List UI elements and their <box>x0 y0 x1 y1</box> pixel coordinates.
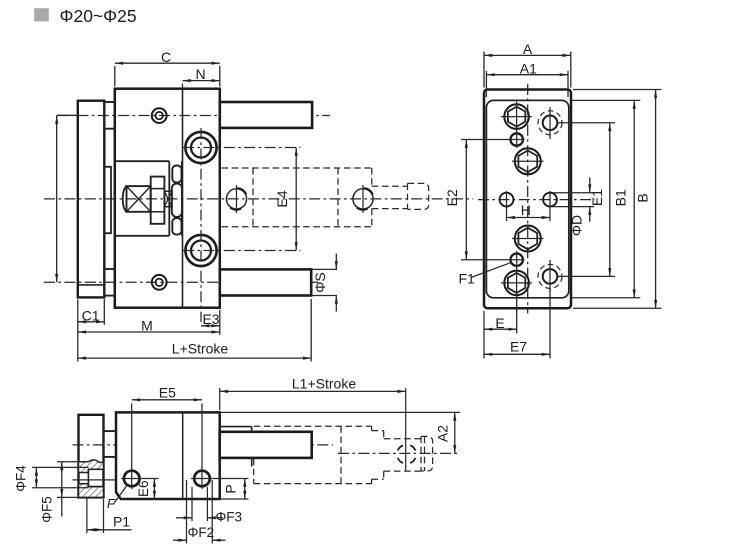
top connecting tab <box>104 102 115 129</box>
dim P <box>244 479 246 500</box>
hex port B <box>515 148 541 174</box>
port vertical centerline <box>200 128 202 322</box>
dim N ext <box>182 84 184 89</box>
svg-text:C: C <box>161 49 171 65</box>
dim A2 ext <box>220 411 460 413</box>
ghost table top edge <box>222 167 372 169</box>
piston rod <box>220 102 312 128</box>
svg-text:L1+Stroke: L1+Stroke <box>292 376 356 392</box>
dim E4 <box>295 148 297 251</box>
flange boss <box>104 167 111 233</box>
dim L+Stroke ext <box>310 299 312 362</box>
svg-text:E6: E6 <box>136 480 151 497</box>
hex port C <box>515 226 541 252</box>
port 2 centerline / E4 ext <box>183 250 301 252</box>
dim E2 ext <box>461 139 525 141</box>
svg-text:Φ20~Φ25: Φ20~Φ25 <box>60 6 137 26</box>
counterbore hole bottom-right <box>543 269 558 284</box>
bottom ghost circle C <box>410 445 415 450</box>
port bore lines <box>88 468 103 470</box>
dim C <box>115 62 220 64</box>
svg-text:C1: C1 <box>82 307 100 323</box>
counterbore hole top-right <box>543 116 558 131</box>
H hole right <box>543 193 557 207</box>
ghost block left edge <box>337 168 339 227</box>
dim PhiF5 ext <box>57 461 80 463</box>
plate vertical centerline <box>527 84 529 314</box>
flange plate <box>78 101 105 298</box>
svg-text:ΦS: ΦS <box>312 272 328 293</box>
svg-text:E2: E2 <box>444 189 460 206</box>
dim PhiS <box>335 254 337 270</box>
lower rod <box>220 269 311 295</box>
dim PhiF5 <box>61 462 63 498</box>
small hole 1 (F1) <box>511 133 523 145</box>
bottom ghost steps <box>371 426 373 430</box>
bottom ghost table bottom <box>254 483 372 485</box>
dim PhiF4 <box>35 467 37 487</box>
ghost cap <box>408 183 429 209</box>
dim E6 <box>153 479 155 500</box>
svg-text:N: N <box>196 66 206 82</box>
svg-text:ΦF3: ΦF3 <box>216 510 243 525</box>
bottom ghost cap <box>421 436 433 471</box>
main body block <box>115 89 220 308</box>
flange inner edge <box>78 284 105 286</box>
port hole 2 <box>194 471 210 487</box>
dim L1+Stroke <box>220 390 406 392</box>
dim A1 ext <box>485 71 487 97</box>
ghost boss top/bottom <box>372 185 408 187</box>
hex socket screw A <box>504 104 529 129</box>
dim PhiD ext <box>552 192 594 194</box>
stopper bolt head cap <box>123 186 127 212</box>
svg-text:A: A <box>523 41 533 57</box>
label F1 leader <box>471 262 512 277</box>
svg-text:E3: E3 <box>202 311 219 327</box>
flanged nut <box>172 166 181 183</box>
bottom flange plate <box>79 415 104 498</box>
bottom view centerline <box>73 444 334 446</box>
dim B <box>655 90 657 309</box>
dim E7 <box>484 353 550 355</box>
svg-text:A1: A1 <box>520 60 537 76</box>
counterbore ext lines hole 2 <box>186 480 188 544</box>
svg-text:ΦD: ΦD <box>568 215 584 236</box>
dim E1 <box>609 123 611 277</box>
svg-text:P1: P1 <box>113 514 130 530</box>
svg-text:A2: A2 <box>434 425 450 442</box>
dim PhiF4 ext <box>32 466 89 468</box>
plate inner table outline <box>486 100 568 297</box>
screw hole top <box>152 108 167 123</box>
dim B ext <box>573 89 662 91</box>
bottom body block <box>116 412 220 499</box>
dim axes distance (left) <box>57 114 78 116</box>
dim PhiF2 <box>173 539 187 541</box>
dim E3 ext <box>219 310 221 335</box>
svg-text:ΦF4: ΦF4 <box>14 465 29 492</box>
dim L1+Stroke ext <box>219 388 221 410</box>
stopper bracket <box>168 161 170 236</box>
dim PhiF3 <box>176 517 192 519</box>
dim C1 ext <box>77 299 79 361</box>
port centerline <box>73 479 117 481</box>
H hole left <box>500 193 514 207</box>
table edge below rod <box>251 458 253 467</box>
stopper bolt head <box>127 186 151 212</box>
hex socket screw D <box>504 271 529 296</box>
bottom ghost rod <box>384 438 421 440</box>
svg-text:B1: B1 <box>613 189 629 206</box>
title gray square <box>34 8 49 21</box>
dim A <box>484 54 571 56</box>
dim L+Stroke <box>78 357 311 359</box>
dim E1 ext <box>558 122 616 124</box>
dim P1 ext <box>86 498 88 534</box>
dim E <box>484 328 517 330</box>
ghost hole circle A <box>226 189 246 209</box>
plate row centerline <box>478 199 595 201</box>
dim E3 <box>201 325 220 327</box>
stopper cavity top <box>115 160 170 162</box>
bottom connecting tab <box>104 269 115 296</box>
ghost hole circle B <box>353 189 373 209</box>
svg-text:E1: E1 <box>589 189 605 206</box>
plate outline <box>484 90 571 309</box>
dim E ext <box>483 311 485 359</box>
dim PhiS ext lines <box>312 268 338 270</box>
svg-text:E: E <box>495 315 504 331</box>
port hole 1 <box>124 471 140 487</box>
svg-text:ΦF2: ΦF2 <box>188 525 215 540</box>
svg-text:F: F <box>107 496 116 511</box>
port circle 1 <box>185 132 216 163</box>
bottom body internal edge <box>182 412 184 499</box>
svg-text:B: B <box>634 193 650 202</box>
dim B1 ext <box>572 99 640 101</box>
dim C1 <box>78 321 105 323</box>
svg-text:L+Stroke: L+Stroke <box>172 340 229 356</box>
dim A ext <box>483 52 485 88</box>
dim B1 <box>633 100 635 297</box>
dim PhiD <box>589 178 591 193</box>
svg-text:ΦF5: ΦF5 <box>40 496 55 523</box>
ghost table end edge <box>252 168 254 227</box>
screw hole bottom <box>152 275 167 290</box>
dim A1 <box>486 74 568 76</box>
svg-text:F1: F1 <box>459 271 476 287</box>
svg-text:E7: E7 <box>510 338 527 354</box>
bottom connecting tab <box>104 431 117 457</box>
small hole 2 <box>511 254 523 266</box>
dim E5 <box>132 399 202 401</box>
dim E5 ext <box>131 404 133 490</box>
dim M <box>78 331 220 333</box>
svg-text:E5: E5 <box>159 385 176 401</box>
body internal edge <box>182 89 184 308</box>
svg-text:P: P <box>223 484 239 493</box>
bottom ghost table top <box>254 425 372 427</box>
dim P1 <box>87 529 104 531</box>
svg-text:M: M <box>141 318 153 334</box>
port hatched band upper <box>79 460 104 473</box>
centerline table axis <box>44 198 473 200</box>
stopper cavity bottom <box>115 235 170 237</box>
svg-text:H: H <box>521 202 531 218</box>
lock nut <box>151 177 165 224</box>
centerline rod axis <box>57 115 330 117</box>
bottom ghost table end <box>253 459 255 484</box>
thread stub <box>164 191 172 207</box>
dim A2 <box>454 412 456 453</box>
bottom ghost block edge <box>340 426 342 483</box>
dim N <box>183 80 220 82</box>
port circle 2 <box>185 235 216 266</box>
dim E2 <box>465 140 467 260</box>
port hatched band lower <box>79 484 104 498</box>
ghost table bottom edge <box>222 226 372 228</box>
dim E7 ext <box>549 289 551 359</box>
bottom rod <box>220 432 312 458</box>
dim H <box>507 217 551 219</box>
port 1 centerline / E4 ext <box>183 147 301 149</box>
ghost axis centerline <box>338 452 460 454</box>
dim C ext lines <box>114 66 116 87</box>
svg-text:E4: E4 <box>274 190 290 207</box>
table edge above rod <box>220 426 252 428</box>
dim P ext <box>221 498 249 500</box>
ghost block right step <box>371 168 373 186</box>
centerline lower rod axis <box>44 281 318 283</box>
label F leader <box>114 484 128 503</box>
